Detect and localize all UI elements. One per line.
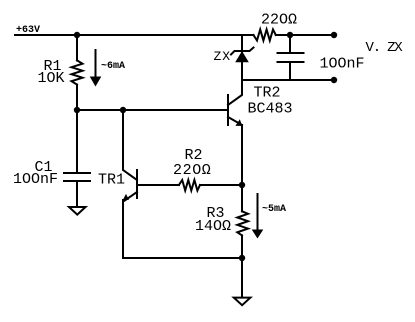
svg-text:22OΩ: 22OΩ — [261, 12, 297, 29]
resistor 220 ohm (output series, horizontal) — [254, 30, 276, 41]
wire zener bottom lead — [241, 62, 243, 80]
TR2 collector — [228, 80, 242, 105]
wire C2 top lead — [289, 35, 291, 53]
wire TR1 base to R2 — [137, 184, 179, 186]
wire R2 to emitter node — [200, 184, 242, 186]
TR2 base bar — [227, 95, 229, 125]
resistor R2 220 ohm (horizontal) — [179, 180, 200, 191]
wire base rail (R1 bottom to TR2 base) — [77, 109, 228, 111]
svg-text:~6mA: ~6mA — [101, 61, 125, 72]
terminal node top right — [331, 32, 337, 38]
ground (under R3) — [234, 298, 251, 306]
node junction at TR1 collector branch — [120, 107, 126, 113]
wire to ground — [241, 258, 243, 297]
capacitor C2 100nF output — [278, 52, 304, 54]
wire TR2 emitter to R2/R3 node — [241, 125, 243, 185]
wire C2 bottom lead — [289, 62, 291, 80]
wire R1 top lead — [76, 35, 78, 60]
wire top rail right (220R to output terminal) — [276, 34, 334, 36]
wire zener top lead — [241, 35, 243, 52]
svg-text:TR1: TR1 — [98, 172, 125, 189]
TR1 emitter — [124, 192, 137, 201]
svg-text:1OOnF: 1OOnF — [320, 55, 365, 72]
node junction C2 top — [287, 32, 293, 38]
wire R1 bottom lead — [76, 85, 78, 110]
svg-text:ZX: ZX — [214, 49, 232, 64]
TR1 base bar — [136, 170, 138, 198]
wire output bottom rail — [242, 79, 334, 81]
svg-text:V. ZX: V. ZX — [366, 40, 404, 56]
TR2 emitter — [228, 117, 242, 125]
wire C1 top lead — [76, 110, 78, 173]
ground (under C1) — [69, 207, 86, 215]
wire bottom rail — [123, 257, 242, 259]
svg-text:22OΩ: 22OΩ — [173, 162, 211, 179]
current arrow ~6mA — [95, 50, 97, 77]
zener anode triangle — [235, 51, 249, 62]
svg-text:14OΩ: 14OΩ — [195, 218, 231, 235]
node junction R2/R3/TR2 emitter — [239, 182, 245, 188]
transistor TR2 — [228, 80, 242, 126]
svg-text:BC483: BC483 — [248, 101, 293, 118]
capacitor C1 — [64, 172, 90, 174]
current arrow ~5mA — [257, 194, 259, 230]
wire top rail left (+63V to 220R) — [15, 34, 254, 36]
svg-text:TR2: TR2 — [254, 85, 281, 102]
resistor R3 (vertical) — [237, 211, 248, 235]
wire TR1 emitter down — [122, 200, 124, 258]
svg-text:1OOnF: 1OOnF — [13, 171, 58, 188]
wire C1 bottom lead — [76, 181, 78, 206]
node junction bottom rail / R3 — [239, 255, 245, 261]
zener cathode bar with wings — [231, 48, 254, 55]
wire R3 bottom lead — [241, 235, 243, 258]
svg-text:1OK: 1OK — [38, 70, 65, 87]
zener diode ZX — [231, 35, 254, 80]
TR1 collector — [123, 110, 137, 180]
svg-text:~5mA: ~5mA — [262, 204, 286, 215]
resistor R1 (vertical) — [72, 60, 83, 84]
node junction R1 top — [74, 32, 80, 38]
terminal node bottom right — [331, 77, 337, 83]
node junction at R1 bottom — [74, 107, 80, 113]
wire R3 top lead — [241, 185, 243, 211]
transistor TR1 — [123, 110, 137, 201]
